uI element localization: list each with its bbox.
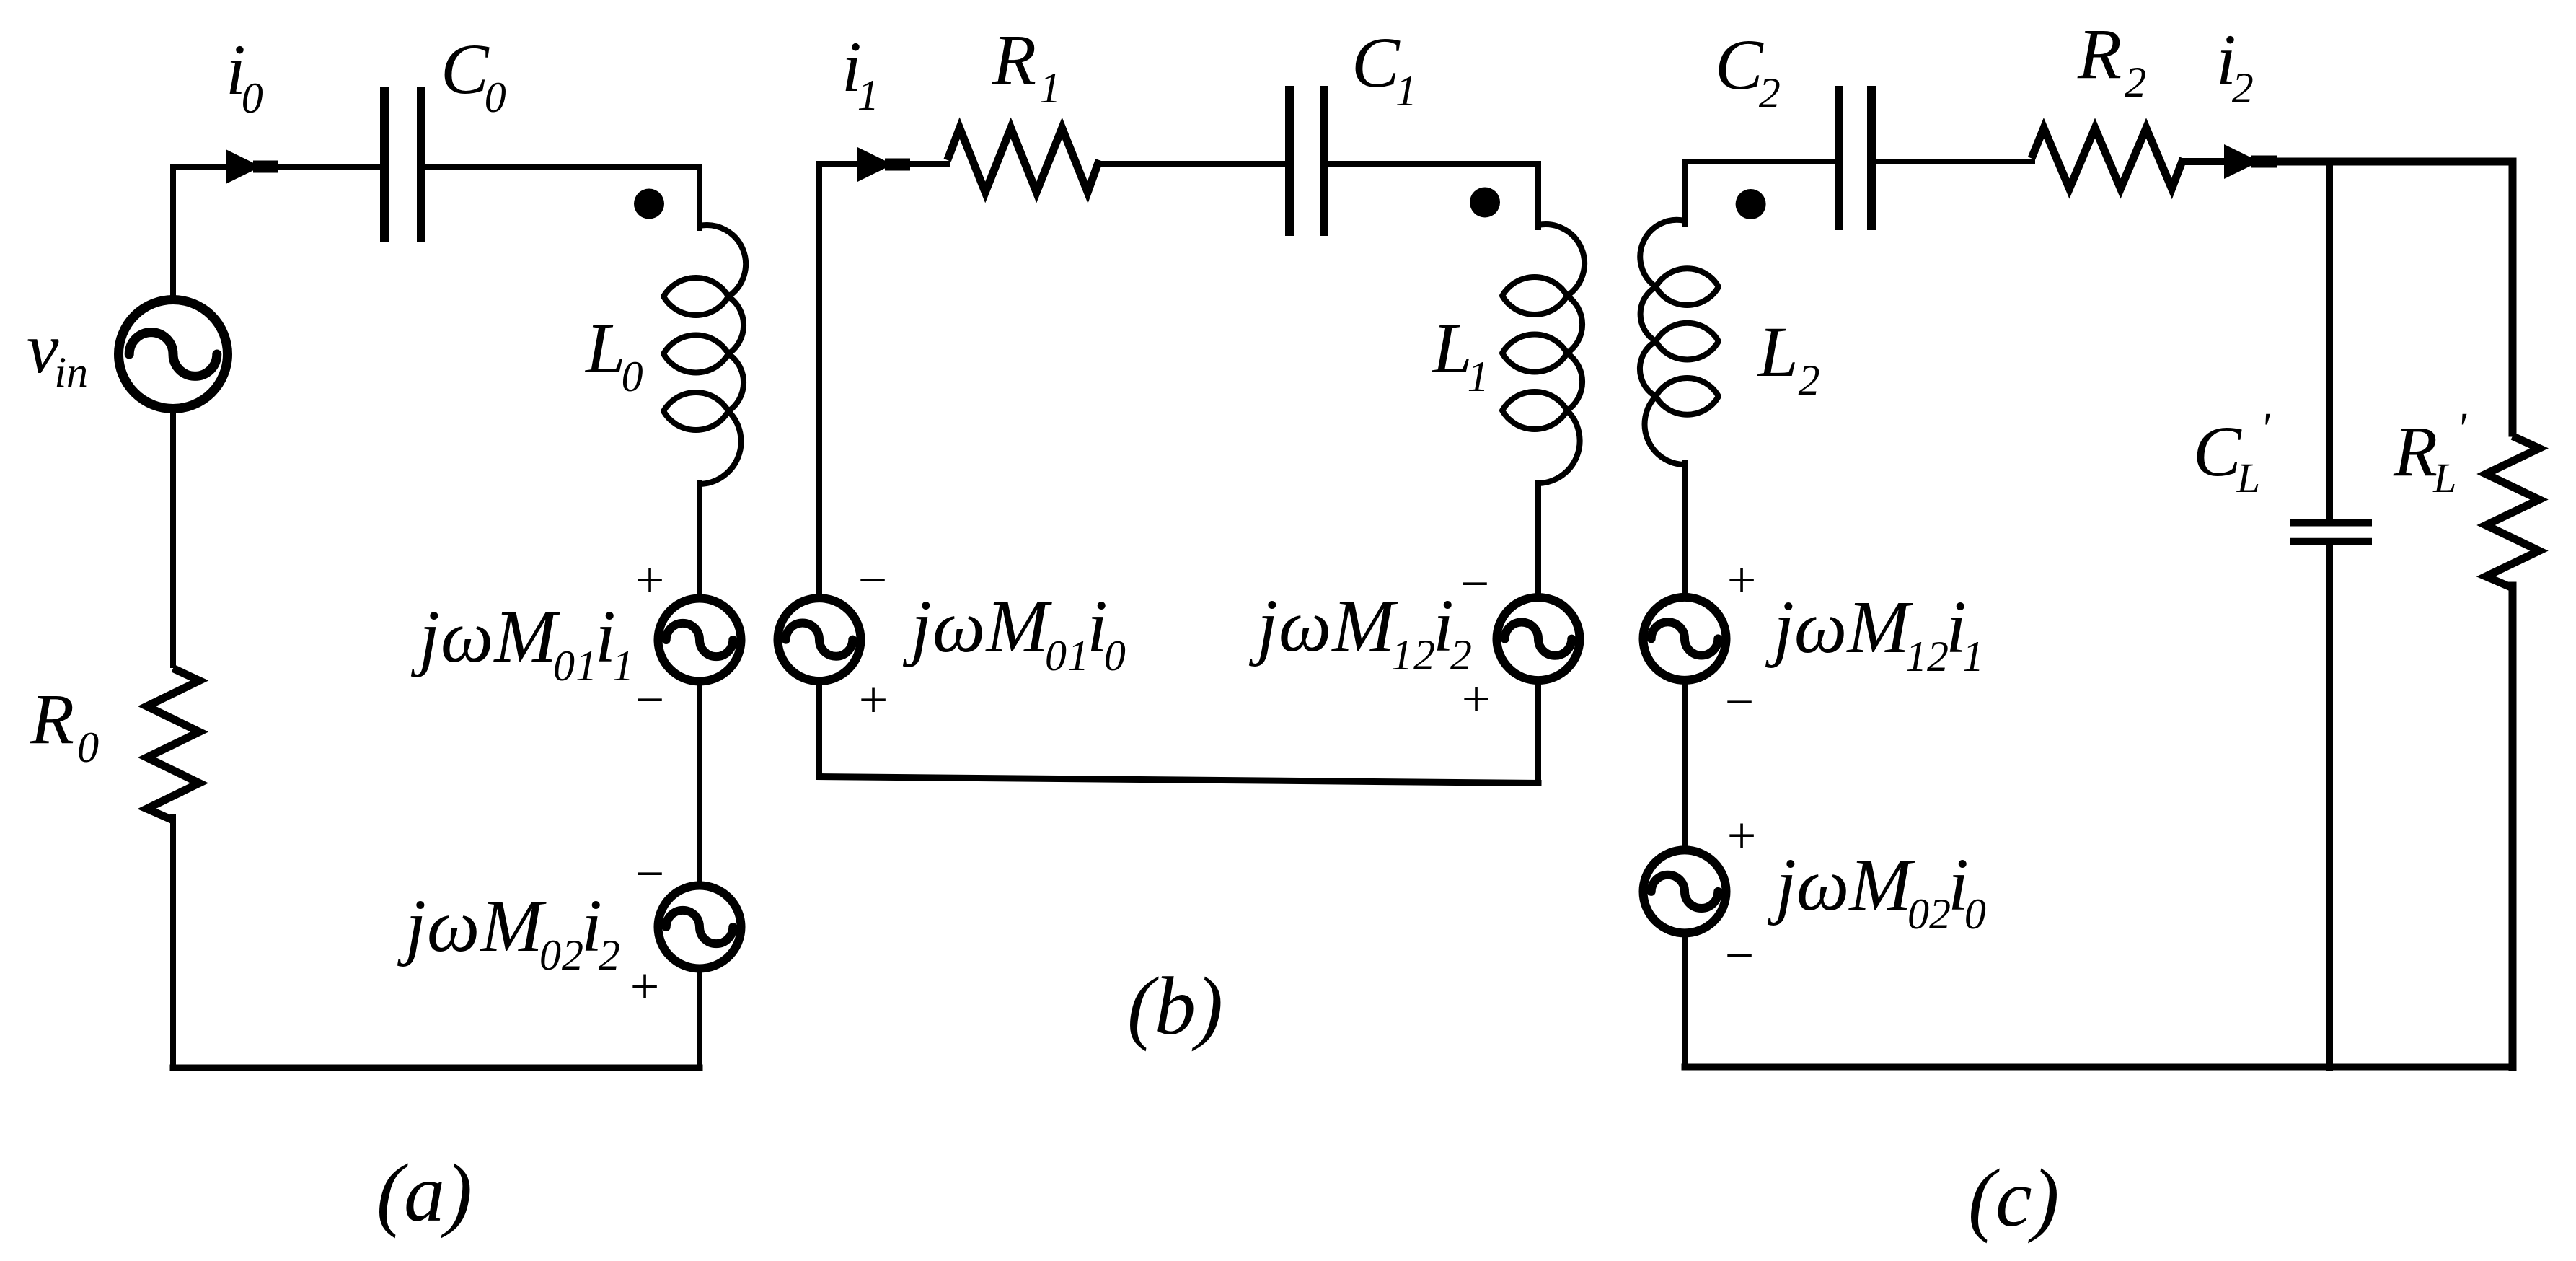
svg-text:jωM02i2: jωM02i2 <box>397 884 621 979</box>
svg-text:+: + <box>635 551 665 609</box>
svg-text:−: − <box>635 671 665 729</box>
svg-text:+: + <box>1727 551 1757 609</box>
svg-text:jωM12i2: jωM12i2 <box>1248 584 1473 679</box>
wire CL branch upper <box>2326 162 2333 519</box>
resistor RL load <box>2486 436 2539 589</box>
svg-text:+: + <box>1462 670 1491 728</box>
wire (b) top-middle segment <box>1101 161 1286 167</box>
wire (a) right upper <box>697 167 702 228</box>
wire (c) right lower <box>2509 586 2517 1067</box>
svg-text:jωM02i0: jωM02i0 <box>1767 843 1986 938</box>
svg-text:jωM01i0: jωM01i0 <box>902 585 1126 680</box>
wire CL branch lower <box>2326 545 2333 1067</box>
svg-text:−: − <box>635 845 665 902</box>
current arrow i2 <box>2224 144 2259 179</box>
svg-text:−: − <box>858 551 888 609</box>
wire (a) top-right segment <box>425 164 700 170</box>
current arrow i1 <box>857 147 893 182</box>
wire (c) top-middle segment <box>1876 159 2032 164</box>
svg-text:+: + <box>1727 807 1757 864</box>
svg-text:(b): (b) <box>1127 960 1223 1052</box>
resistor R1 <box>948 128 1100 193</box>
coupling dot L0 <box>634 189 664 219</box>
wire (b) top-left segment <box>819 161 948 167</box>
coupling dot L1 <box>1470 188 1500 218</box>
voltage source vin <box>119 300 228 409</box>
wire (b) bottom sloped <box>819 777 1538 783</box>
svg-text:(c): (c) <box>1968 1152 2060 1244</box>
inductor L1 <box>1502 224 1584 483</box>
wire (b) left lower <box>816 685 822 777</box>
wire (a) left lower <box>170 817 176 1068</box>
wire (b) left upper <box>816 164 822 595</box>
wire (a) left middle <box>170 413 176 665</box>
wire (c) right upper <box>2509 162 2517 433</box>
wire (b) right between L1 and source <box>1535 483 1541 594</box>
wire (a) right between L0 and source <box>697 483 702 596</box>
wire (c) top-right segment <box>2253 158 2513 166</box>
coupling dot L2 <box>1736 189 1766 219</box>
wire (a) top-left segment <box>173 164 380 170</box>
svg-text:(a): (a) <box>376 1147 472 1239</box>
svg-text:+: + <box>630 957 660 1015</box>
dependent source jwM02i2 <box>658 886 741 969</box>
wire (c) left middle2 <box>1682 683 1688 847</box>
wire (a) right bottom <box>697 972 702 1068</box>
svg-text:jωM01i1: jωM01i1 <box>410 595 635 690</box>
wire (c) bottom <box>1685 1064 2513 1071</box>
current arrow i0 <box>226 149 261 184</box>
wire (a) bottom <box>173 1065 700 1071</box>
svg-text:+: + <box>859 671 888 729</box>
wire (c) top wire after R2 <box>2185 158 2226 165</box>
wire (a) left upper <box>170 167 176 297</box>
dependent source jwM01i0 <box>778 598 861 681</box>
resistor R0 <box>147 669 200 821</box>
inductor L0 <box>663 225 746 484</box>
capacitor C1 <box>1289 86 1324 236</box>
svg-text:RL': RL' <box>2393 405 2467 501</box>
dependent source jwM01i1 <box>658 599 741 682</box>
dependent source jwM12i2 <box>1497 597 1580 680</box>
capacitor CL load <box>2290 523 2372 542</box>
capacitor C2 <box>1839 86 1871 230</box>
dependent source jwM12i1 <box>1644 597 1726 680</box>
wire (c) left lower <box>1682 936 1688 1067</box>
capacitor C0 <box>384 87 421 242</box>
wire (b) right lower <box>1535 684 1541 783</box>
svg-text:−: − <box>1725 673 1755 731</box>
wire (a) right between sources <box>697 685 702 883</box>
wire (c) left upper <box>1682 162 1688 224</box>
dependent source jwM02i0 <box>1644 850 1726 933</box>
wire (c) top-left segment <box>1685 159 1835 164</box>
wire (b) right upper <box>1535 164 1541 227</box>
wire (b) top-right segment <box>1328 161 1538 167</box>
inductor L2 <box>1640 220 1719 465</box>
svg-text:−: − <box>1460 555 1490 612</box>
resistor R2 <box>2032 128 2184 189</box>
wire (c) left middle1 <box>1682 463 1688 594</box>
svg-text:−: − <box>1725 926 1755 984</box>
svg-text:jωM12i1: jωM12i1 <box>1765 586 1984 680</box>
